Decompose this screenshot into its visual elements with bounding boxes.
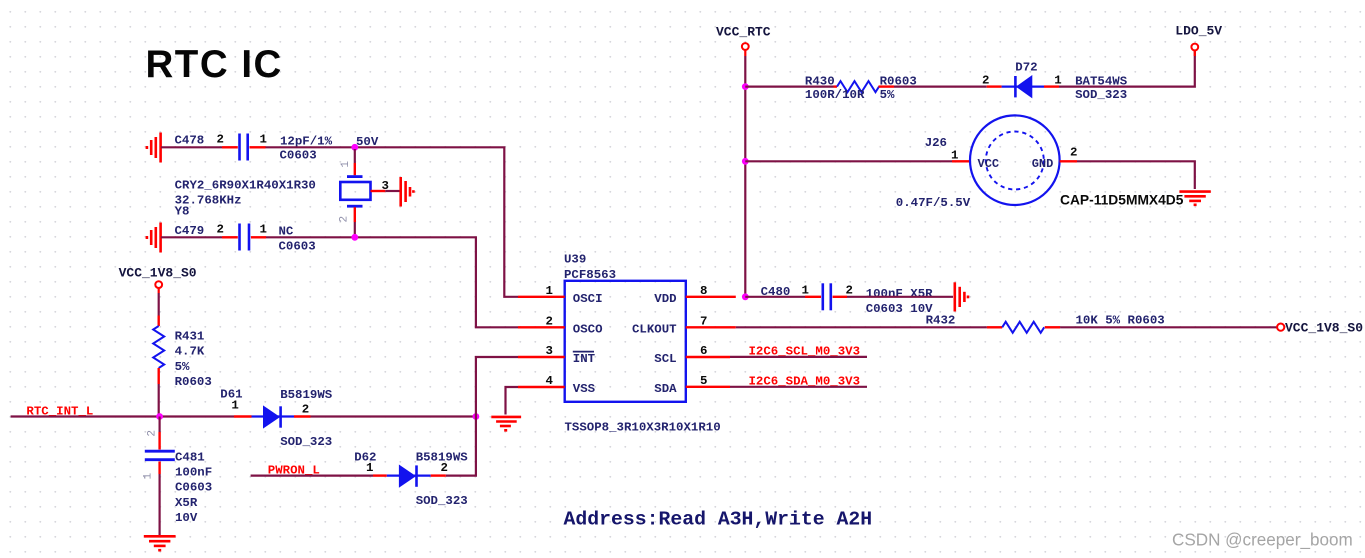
svg-text:C0603 10V: C0603 10V bbox=[866, 302, 933, 316]
svg-text:CLKOUT: CLKOUT bbox=[632, 322, 677, 336]
svg-text:3: 3 bbox=[546, 344, 553, 358]
pin 4 VSS bbox=[518, 386, 565, 388]
op IC U39 PCF8563 bbox=[518, 253, 736, 435]
svg-text:2: 2 bbox=[1070, 145, 1077, 159]
svg-text:2: 2 bbox=[302, 402, 309, 416]
ground (below VSS) bbox=[491, 417, 521, 430]
svg-text:2: 2 bbox=[217, 133, 224, 147]
svg-text:5: 5 bbox=[700, 374, 707, 388]
pin 6 SCL bbox=[686, 356, 730, 358]
svg-text:VCC_1V8_S0: VCC_1V8_S0 bbox=[1285, 320, 1363, 335]
net I2C6_SDA_M0_3V3 bbox=[730, 386, 867, 388]
pin 3 INT bbox=[518, 356, 565, 358]
wire (VCC_RTC rail) bbox=[744, 56, 746, 297]
capacitor C478 bbox=[175, 133, 379, 163]
wire (C479 gnd to cap) bbox=[161, 236, 222, 238]
node (crystal pin1 junction) bbox=[351, 144, 358, 151]
svg-text:100nF: 100nF bbox=[175, 466, 212, 480]
svg-text:1: 1 bbox=[260, 223, 267, 237]
svg-text:2: 2 bbox=[546, 314, 553, 328]
svg-text:8: 8 bbox=[700, 284, 707, 298]
svg-text:0.47F/5.5V: 0.47F/5.5V bbox=[896, 196, 971, 210]
svg-text:C480: C480 bbox=[761, 285, 791, 299]
svg-text:7: 7 bbox=[700, 314, 707, 328]
svg-text:C479: C479 bbox=[175, 224, 205, 238]
svg-text:INT: INT bbox=[573, 352, 596, 366]
svg-text:LDO_5V: LDO_5V bbox=[1175, 23, 1222, 38]
svg-text:4.7K: 4.7K bbox=[175, 345, 205, 359]
wire (node down to D62) bbox=[446, 417, 476, 476]
power VCC_RTC bbox=[716, 24, 771, 56]
svg-text:RTC_INT_L: RTC_INT_L bbox=[26, 404, 93, 418]
pin 5 SDA bbox=[686, 386, 730, 388]
svg-text:VCC: VCC bbox=[978, 157, 1000, 171]
svg-text:5%: 5% bbox=[175, 360, 190, 374]
svg-text:Address:Read A3H,Write A2H: Address:Read A3H,Write A2H bbox=[564, 509, 873, 531]
supercap J26 bbox=[896, 115, 1184, 209]
node (diode-OR junction) bbox=[473, 413, 480, 420]
svg-text:1: 1 bbox=[802, 284, 809, 298]
diode D62 bbox=[354, 450, 468, 508]
ground (left of C478) bbox=[147, 133, 161, 163]
node (crystal pin2 junction) bbox=[351, 234, 358, 241]
svg-text:100R/10R: 100R/10R bbox=[805, 88, 865, 102]
svg-text:X5R: X5R bbox=[175, 496, 198, 510]
net RTC_INT_L bbox=[11, 415, 234, 417]
wire (D61 to node) bbox=[311, 415, 476, 417]
svg-text:J26: J26 bbox=[925, 136, 947, 150]
svg-text:U39: U39 bbox=[564, 253, 586, 267]
svg-text:1: 1 bbox=[1054, 73, 1061, 87]
svg-text:C0603: C0603 bbox=[175, 481, 212, 495]
svg-text:R0603: R0603 bbox=[175, 375, 212, 389]
svg-text:I2C6_SCL_M0_3V3: I2C6_SCL_M0_3V3 bbox=[749, 345, 861, 359]
svg-text:VDD: VDD bbox=[654, 292, 676, 306]
diode D61 bbox=[220, 388, 333, 449]
resistor R432 bbox=[926, 314, 1165, 333]
wire (R431 to RTC_INT_L) bbox=[158, 384, 160, 417]
svg-text:3: 3 bbox=[382, 179, 389, 193]
power VCC_1V8_S0 (right) bbox=[1277, 320, 1363, 335]
wire (C481 to gnd) bbox=[159, 474, 161, 535]
wire (node to U39 INT) bbox=[476, 357, 518, 417]
svg-text:TSSOP8_3R10X3R10X1R10: TSSOP8_3R10X3R10X1R10 bbox=[565, 421, 721, 435]
svg-text:2: 2 bbox=[982, 73, 989, 87]
wire (VCC to R431) bbox=[158, 293, 160, 316]
svg-text:10K 5% R0603: 10K 5% R0603 bbox=[1076, 314, 1165, 328]
svg-text:OSCO: OSCO bbox=[573, 322, 603, 336]
ground (left of C479) bbox=[147, 223, 161, 253]
ground (below C481) bbox=[144, 536, 176, 550]
ground (right of C480) bbox=[955, 282, 968, 311]
wire (C480 to gnd) bbox=[847, 296, 953, 298]
svg-text:1: 1 bbox=[260, 133, 267, 147]
svg-text:B5819WS: B5819WS bbox=[280, 388, 333, 402]
svg-text:1: 1 bbox=[951, 148, 958, 162]
svg-text:R431: R431 bbox=[175, 330, 205, 344]
wire (J26 pin2 to gnd) bbox=[1077, 161, 1195, 189]
svg-text:I2C6_SDA_M0_3V3: I2C6_SDA_M0_3V3 bbox=[749, 375, 861, 389]
power LDO_5V bbox=[1175, 23, 1222, 56]
svg-text:VCC_RTC: VCC_RTC bbox=[716, 24, 771, 39]
svg-text:2: 2 bbox=[146, 430, 158, 437]
svg-text:RTC IC: RTC IC bbox=[146, 43, 283, 86]
resistor R431 bbox=[153, 316, 212, 390]
svg-text:Y8: Y8 bbox=[175, 205, 190, 219]
pin 1 OSCI bbox=[518, 296, 565, 298]
svg-text:CAP-11D5MMX4D5: CAP-11D5MMX4D5 bbox=[1060, 192, 1184, 207]
resistor R430 bbox=[805, 74, 917, 102]
svg-text:SOD_323: SOD_323 bbox=[280, 435, 332, 449]
svg-text:2: 2 bbox=[217, 223, 224, 237]
wire (to R430) bbox=[745, 85, 833, 87]
wire (D72 to LDO_5V) bbox=[1059, 51, 1195, 87]
wire (R432 to VCC_1V8_S0 port) bbox=[1060, 326, 1277, 328]
svg-text:SOD_323: SOD_323 bbox=[416, 494, 468, 508]
crystal Y8 bbox=[175, 149, 400, 237]
svg-text:C0603: C0603 bbox=[280, 149, 317, 163]
wire (R430 to D72) bbox=[894, 85, 987, 87]
wire (VDD junction to C480) bbox=[745, 296, 805, 298]
svg-text:OSCI: OSCI bbox=[573, 292, 603, 306]
wire (VSS to gnd) bbox=[506, 387, 519, 415]
svg-text:SDA: SDA bbox=[654, 382, 677, 396]
svg-text:SCL: SCL bbox=[654, 352, 676, 366]
wire (CLKOUT to R432) bbox=[736, 326, 987, 328]
net PWRON_L bbox=[251, 475, 373, 477]
net I2C6_SCL_M0_3V3 bbox=[730, 356, 867, 358]
node (R430 tap) bbox=[742, 83, 749, 90]
svg-text:VCC_1V8_S0: VCC_1V8_S0 bbox=[119, 266, 197, 281]
svg-text:4: 4 bbox=[546, 374, 554, 388]
svg-text:2: 2 bbox=[339, 216, 351, 223]
svg-text:1: 1 bbox=[231, 398, 238, 412]
node (VDD tap) bbox=[742, 293, 749, 300]
node (R431/C481 junction) bbox=[156, 413, 163, 420]
pin 7 CLKOUT bbox=[686, 326, 736, 328]
wire (C479 to U39 OSCO) bbox=[266, 237, 518, 327]
svg-text:CSDN @creeper_boom: CSDN @creeper_boom bbox=[1172, 531, 1353, 550]
svg-text:C478: C478 bbox=[175, 134, 205, 148]
svg-text:1: 1 bbox=[143, 473, 155, 480]
ground (below J26) bbox=[1179, 192, 1210, 205]
svg-text:C481: C481 bbox=[175, 451, 205, 465]
svg-text:SOD_323: SOD_323 bbox=[1075, 88, 1127, 102]
svg-text:2: 2 bbox=[846, 284, 853, 298]
svg-text:VSS: VSS bbox=[573, 382, 596, 396]
svg-text:2: 2 bbox=[441, 461, 448, 475]
svg-text:5%: 5% bbox=[880, 88, 895, 102]
ground (right of crystal pin3) bbox=[401, 177, 414, 207]
svg-text:D72: D72 bbox=[1015, 61, 1037, 75]
wire (C478 gnd to cap) bbox=[161, 146, 222, 148]
svg-text:100nF X5R: 100nF X5R bbox=[866, 287, 933, 301]
svg-text:10V: 10V bbox=[175, 511, 198, 525]
svg-text:C0603: C0603 bbox=[279, 240, 316, 254]
pin 8 VDD bbox=[686, 296, 736, 298]
capacitor C479 bbox=[175, 223, 316, 254]
wire (C478 to U39 OSCI) bbox=[266, 147, 519, 296]
wire (rail to J26) bbox=[745, 160, 952, 162]
svg-text:GND: GND bbox=[1032, 157, 1054, 171]
pin 2 OSCO bbox=[518, 326, 565, 328]
svg-text:1: 1 bbox=[366, 461, 373, 475]
capacitor C481 bbox=[143, 417, 213, 525]
svg-text:PWRON_L: PWRON_L bbox=[268, 464, 320, 478]
svg-text:1: 1 bbox=[340, 161, 352, 168]
svg-text:R430: R430 bbox=[805, 74, 835, 88]
svg-text:1: 1 bbox=[546, 284, 553, 298]
svg-text:R432: R432 bbox=[926, 314, 956, 328]
svg-text:6: 6 bbox=[700, 344, 707, 358]
node (J26 tap) bbox=[742, 158, 749, 165]
svg-text:CRY2_6R90X1R40X1R30: CRY2_6R90X1R40X1R30 bbox=[175, 179, 316, 193]
capacitor C480 bbox=[761, 283, 934, 316]
diode D72 bbox=[982, 61, 1128, 103]
power VCC_1V8_S0 (left) bbox=[119, 266, 197, 294]
